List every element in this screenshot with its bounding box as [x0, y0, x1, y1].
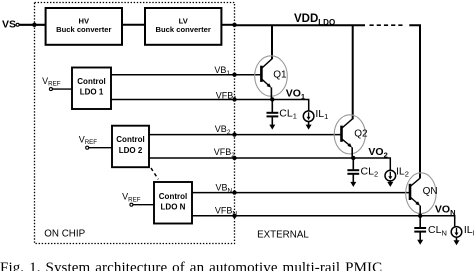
on-chip dashed boundary — [35, 3, 235, 244]
wire Q2 collector drop — [352, 25, 354, 119]
svg-text:Buck converter: Buck converter — [156, 25, 211, 34]
control LDO N — [154, 182, 192, 224]
svg-text:VDDLDO: VDDLDO — [294, 13, 335, 27]
junction dot VB1 border — [232, 73, 236, 77]
LV buck converter — [145, 8, 221, 45]
ellipsis dashed diagonal LDO2 to LDON — [151, 168, 158, 179]
svg-text:Buck converter: Buck converter — [56, 25, 111, 34]
VDD_LDO rail solid — [235, 24, 366, 26]
junction dot VO1 — [270, 97, 274, 101]
wire VB1 — [111, 74, 261, 76]
svg-text:Control: Control — [116, 135, 144, 144]
junction dot VON — [418, 214, 422, 218]
svg-text:LDO 2: LDO 2 — [119, 146, 143, 155]
terminal circle VREFN — [130, 203, 133, 206]
transistor Q1 — [255, 56, 288, 100]
svg-text:VREF: VREF — [79, 134, 98, 146]
svg-text:VON: VON — [435, 204, 456, 217]
current source IL2 — [385, 170, 396, 187]
svg-text:VO2: VO2 — [368, 146, 387, 159]
svg-text:Q2: Q2 — [354, 129, 368, 140]
terminal circle VREF1 — [49, 88, 52, 91]
junction dot VS on border — [32, 23, 36, 27]
wire VS to HV buck — [19, 24, 46, 26]
svg-text:EXTERNAL: EXTERNAL — [257, 230, 309, 241]
svg-text:CL1: CL1 — [279, 107, 297, 120]
wire VFB2 / VO2 node — [149, 158, 390, 170]
HV buck converter — [46, 8, 122, 45]
junction dot VFBN border — [232, 214, 236, 218]
VDD_LDO rail dashed — [370, 24, 405, 26]
capacitor CLN — [414, 216, 426, 245]
junction dot VB2 border — [232, 132, 236, 136]
wire VREF1 to LDO1 — [52, 88, 72, 90]
capacitor CL1 — [267, 100, 279, 130]
junction dot VDD on border — [232, 23, 236, 27]
svg-text:Q1: Q1 — [273, 70, 287, 81]
junction dot VO2 — [351, 156, 355, 160]
svg-text:VREF: VREF — [122, 192, 141, 204]
current source IL1 — [303, 111, 314, 130]
svg-text:CL2: CL2 — [361, 165, 379, 178]
current source ILN — [451, 227, 462, 246]
wire VB2 — [149, 134, 342, 136]
terminal circle VREF2 — [86, 146, 89, 149]
svg-text:VS: VS — [2, 19, 16, 31]
svg-text:IL1: IL1 — [315, 108, 328, 121]
junction dot VFB1 border — [232, 97, 236, 101]
svg-text:Fig. 1. System architecture of: Fig. 1. System architecture of an automo… — [0, 260, 382, 271]
control LDO 1 — [72, 68, 111, 110]
capacitor CL2 — [347, 158, 359, 187]
VDD_LDO rail right solid + QN collector drop — [409, 25, 420, 178]
wire VFBN / VON node — [192, 216, 455, 227]
wire VREF2 to LDO2 — [89, 147, 112, 149]
svg-text:VO1: VO1 — [286, 88, 305, 101]
svg-text:Control: Control — [159, 192, 187, 201]
svg-text:IL2: IL2 — [396, 165, 409, 178]
wire VREFN to LDON — [133, 204, 154, 206]
svg-text:VREF: VREF — [42, 76, 61, 88]
transistor Q2 — [334, 115, 365, 158]
junction dot VFB2 border — [232, 156, 236, 160]
transistor QN — [406, 173, 436, 216]
terminal circle VS — [16, 23, 19, 26]
svg-text:Control: Control — [77, 77, 105, 86]
wire HV to LV — [122, 24, 145, 26]
svg-text:CLN: CLN — [428, 224, 447, 237]
wire Q1 collector drop — [271, 25, 273, 59]
svg-text:LDO 1: LDO 1 — [80, 88, 104, 97]
wire VFB1 / VO1 node — [111, 100, 309, 111]
svg-text:LDO N: LDO N — [161, 202, 186, 211]
control LDO 2 — [112, 126, 149, 168]
wire VBN — [192, 192, 410, 194]
wire LV to VDD rail — [221, 24, 234, 26]
svg-text:QN: QN — [423, 186, 438, 197]
svg-text:ON CHIP: ON CHIP — [44, 228, 85, 239]
svg-text:ILN: ILN — [464, 224, 474, 237]
junction dot VBN border — [232, 190, 236, 194]
